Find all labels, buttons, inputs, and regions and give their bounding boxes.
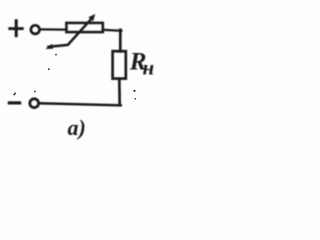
- speck mid-left upper: [55, 54, 57, 56]
- minus polarity mark: [9, 101, 19, 104]
- plus polarity mark: [10, 21, 22, 36]
- speck right of bottom wire corner: [133, 90, 135, 92]
- rheostat R rectangle: [66, 23, 102, 32]
- wire top-left: [40, 28, 67, 30]
- terminal T1 (+) circle: [31, 25, 40, 34]
- wire right vertical lower: [118, 79, 121, 106]
- wiper tail arrowhead (left): [45, 44, 53, 49]
- svg-text:н: н: [143, 55, 155, 79]
- rheostat wiper arm (bent arrow): [49, 19, 92, 47]
- speck above terminal T2: [34, 91, 36, 93]
- wire top-right: [103, 30, 122, 31]
- wiper arrowhead (top): [88, 14, 95, 21]
- wire bottom: [40, 103, 121, 105]
- svg-text:а): а): [68, 115, 86, 140]
- wire right vertical upper: [119, 30, 122, 52]
- speck below right corner: [135, 98, 137, 100]
- speck mid-left lower: [48, 68, 50, 70]
- speck above minus: [13, 92, 16, 95]
- load resistor Rn rectangle: [113, 51, 126, 78]
- terminal T2 (-) circle: [30, 99, 39, 108]
